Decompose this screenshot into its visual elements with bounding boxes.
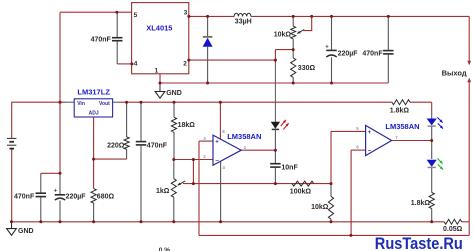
pin 3 opamp1 <box>203 136 206 141</box>
pot R1 wiper arrow <box>297 30 304 34</box>
regulator U2 LM317LZ body <box>74 99 112 117</box>
LED D2 arrows <box>281 120 289 130</box>
label R4 220Ω <box>107 142 125 149</box>
wire Vout rail right <box>410 102 432 112</box>
wire cap bridge <box>41 173 60 192</box>
wire ADJ to R4 <box>94 158 127 160</box>
wire output terminal upper <box>467 16 471 65</box>
svg-text:18kΩ: 18kΩ <box>178 122 196 129</box>
inductor L1 33µH <box>234 13 251 16</box>
label C1 470nF <box>91 36 112 43</box>
wire input+ left vertical <box>59 12 61 173</box>
wire opamp1 vminus riser <box>220 161 222 222</box>
wire opamp2 output <box>392 140 432 142</box>
wire ground rail bottom <box>12 221 445 223</box>
label R7 100kΩ <box>290 188 312 195</box>
pin 4 opamp1 <box>222 165 225 170</box>
pot R6 wiper arrow <box>178 181 186 185</box>
wire FB column lead <box>274 60 276 122</box>
pin 2 opamp1 <box>203 154 206 159</box>
label R8 10kΩ <box>311 204 329 211</box>
op-amp U1 XL4015 body <box>132 3 189 74</box>
label Выход <box>442 69 467 78</box>
pin 2 <box>183 61 187 68</box>
svg-text:−: − <box>215 158 219 164</box>
pin 3 <box>184 10 188 17</box>
LED D4 arrows <box>437 158 443 169</box>
wire sense riser opamp1 <box>198 141 200 235</box>
wire battery to Vin <box>12 102 66 138</box>
svg-text:5: 5 <box>134 12 138 19</box>
pin 5 opamp2 <box>356 126 359 131</box>
svg-text:220µF: 220µF <box>338 50 359 57</box>
wire opamp2 inv riser <box>350 150 352 235</box>
wire FB riser <box>275 50 293 62</box>
wire ADJ column <box>93 117 95 222</box>
svg-text:2: 2 <box>183 61 187 68</box>
label GND left <box>18 228 34 235</box>
svg-text:220Ω: 220Ω <box>107 142 125 149</box>
svg-text:470nF: 470nF <box>14 193 35 200</box>
svg-text:680Ω: 680Ω <box>97 193 115 200</box>
label R11 0.05Ω <box>443 226 463 233</box>
LED D4 blue <box>427 160 437 168</box>
ground pin1 <box>155 83 165 98</box>
svg-text:−: − <box>368 149 372 155</box>
label R9 1.8kΩ <box>390 107 410 114</box>
wire battery negative lead <box>11 149 13 222</box>
svg-text:220µF: 220µF <box>66 193 87 200</box>
op-amp U3B LM358AN <box>366 125 392 155</box>
wire opamp2 inv input <box>351 149 366 151</box>
LED D3 arrows <box>437 117 443 128</box>
svg-text:3: 3 <box>184 10 188 17</box>
label LM317LZ <box>77 88 110 97</box>
wire opamp1 vplus riser <box>219 102 221 139</box>
potentiometer R1 10kΩ <box>291 16 296 49</box>
svg-text:100kΩ: 100kΩ <box>290 188 312 195</box>
label C2 220µF <box>338 50 359 57</box>
resistor R11 0.05Ω <box>444 219 462 224</box>
svg-text:LM358AN: LM358AN <box>385 122 419 131</box>
label C6 470nF <box>147 142 168 149</box>
pin 1 <box>155 68 159 75</box>
wire opamp2 noninv riser <box>331 131 366 183</box>
label R5 18kΩ <box>178 122 196 129</box>
svg-text:GND: GND <box>166 90 182 97</box>
pin 1 opamp1 <box>244 145 247 150</box>
capacitor C6 470nF <box>136 102 147 222</box>
svg-text:RusTaste.Ru: RusTaste.Ru <box>375 235 463 251</box>
pin 4 <box>134 61 138 68</box>
svg-text:LM358AN: LM358AN <box>227 132 261 141</box>
svg-text:+: + <box>368 130 372 136</box>
svg-text:470nF: 470nF <box>147 142 168 149</box>
svg-text:Vout: Vout <box>99 101 110 107</box>
label R2 330Ω <box>298 65 316 72</box>
wire opamp1 noninv input <box>199 140 213 142</box>
pin 8 opamp1 <box>222 129 225 134</box>
capacitor C5 220µF <box>54 173 66 222</box>
resistor R2 330Ω <box>291 50 296 83</box>
label C4 470nF <box>14 193 35 200</box>
svg-text:XL4015: XL4015 <box>146 24 172 33</box>
label R6 1kΩ <box>156 188 170 195</box>
resistor R8 10kΩ <box>328 184 333 222</box>
svg-text:4: 4 <box>134 61 138 68</box>
resistor R4 220Ω <box>124 102 129 159</box>
wire switch node pin3 <box>189 15 234 17</box>
ground left <box>7 222 17 236</box>
svg-text:0 %: 0 % <box>159 247 170 251</box>
label U3A LM358AN <box>227 132 261 141</box>
LED D3 blue <box>427 119 437 127</box>
label R1 10kΩ <box>274 31 292 38</box>
wire node divider riser <box>192 160 194 184</box>
label GND top <box>166 90 182 97</box>
wire led chain <box>431 112 433 222</box>
wire ground rail upper <box>160 82 388 84</box>
battery B1 <box>7 138 16 148</box>
label R10 1.8kΩ <box>411 200 431 207</box>
svg-text:1kΩ: 1kΩ <box>156 188 170 195</box>
label R6 percent <box>159 247 170 251</box>
svg-text:470nF: 470nF <box>91 36 112 43</box>
wire output terminal lower <box>467 78 471 236</box>
wire pin2 feedback <box>189 59 276 61</box>
svg-text:10nF: 10nF <box>281 165 298 172</box>
pin 7 opamp2 <box>395 135 398 140</box>
resistor R9 1.8kΩ <box>392 100 410 105</box>
label watermark RusTaste.Ru <box>375 235 463 251</box>
label C5 220µF <box>66 193 87 200</box>
svg-text:470nF: 470nF <box>362 50 383 57</box>
capacitor C1 470nF <box>112 12 132 64</box>
svg-text:+: + <box>325 44 329 50</box>
wire pin1 stub <box>159 74 161 83</box>
wire wiper node <box>183 183 331 185</box>
wire pot10k wiper <box>303 16 311 30</box>
potentiometer R6 1kΩ <box>171 160 176 222</box>
svg-text:10kΩ: 10kΩ <box>274 31 292 38</box>
svg-text:330Ω: 330Ω <box>298 65 316 72</box>
capacitor C4 470nF <box>36 193 47 222</box>
label C7 10nF <box>281 165 298 172</box>
svg-text:+: + <box>54 188 58 194</box>
resistor R3 680Ω <box>91 189 96 204</box>
pin 6 opamp2 <box>356 145 359 150</box>
pin 5 <box>134 12 138 19</box>
diode D1 <box>203 16 213 83</box>
label R3 680Ω <box>97 193 115 200</box>
capacitor C2 220µF <box>325 16 337 83</box>
wire ground rail to shunt right <box>462 221 470 223</box>
wire input+ top <box>60 11 132 13</box>
svg-text:1.8kΩ: 1.8kΩ <box>411 200 431 207</box>
svg-text:0.05Ω: 0.05Ω <box>443 226 463 233</box>
label L1 33µH <box>235 19 252 26</box>
resistor R7 100kΩ <box>292 181 314 186</box>
resistor R10 1.8kΩ <box>429 193 434 209</box>
wire opamp1 output <box>241 149 275 151</box>
svg-text:Vin: Vin <box>77 101 85 107</box>
svg-text:GND: GND <box>18 228 34 235</box>
svg-text:LM317LZ: LM317LZ <box>77 88 110 97</box>
svg-text:Выход: Выход <box>442 69 467 78</box>
svg-text:10kΩ: 10kΩ <box>311 204 329 211</box>
label C3 470nF <box>362 50 383 57</box>
svg-text:ADJ: ADJ <box>89 110 99 116</box>
svg-text:+: + <box>215 140 219 146</box>
wire opamp1 inv input <box>174 159 213 161</box>
capacitor C7 10nF <box>270 150 281 183</box>
LED D2 red <box>271 122 280 150</box>
svg-text:1: 1 <box>155 68 159 75</box>
label U3B LM358AN <box>385 122 419 131</box>
svg-text:33µH: 33µH <box>235 19 252 26</box>
op-amp U3A LM358AN <box>213 135 241 165</box>
wire Vout rail <box>113 101 392 103</box>
capacitor C3 470nF <box>383 16 394 83</box>
wire output top rail <box>251 15 469 17</box>
wire sense lower <box>199 234 469 236</box>
svg-text:1.8kΩ: 1.8kΩ <box>390 107 410 114</box>
resistor R5 18kΩ <box>171 102 176 159</box>
wire Vin stub <box>66 101 75 103</box>
